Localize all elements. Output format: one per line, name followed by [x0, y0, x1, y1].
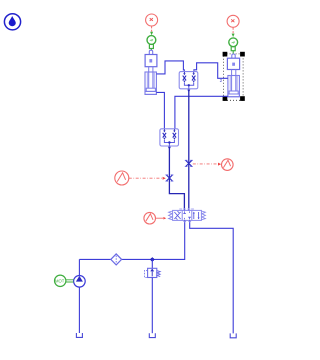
wire W3: C1 piston port to CV2 left pin [156, 92, 164, 128]
filter F1 [111, 254, 122, 265]
check valve block CV2 (pilot operated, lower) [160, 129, 179, 146]
pressure sensor PS1 (left, red dial) [146, 14, 158, 26]
selection frame around right jack [223, 52, 245, 101]
signal link O2 to G2 (dash-dot with arrow) [193, 163, 221, 166]
directional valve DV1 (4/3 proportional) [169, 208, 206, 222]
variable orifice O1 (on A-line) [165, 175, 173, 181]
wire W9: pump outlet to junction [79, 259, 152, 275]
signal link G1 to O1 (dash-dot with arrow) [129, 177, 166, 180]
pump P1 [74, 276, 86, 288]
pressure sensor PS2 (right, red dial) [227, 15, 239, 27]
wire W2: CV1 right pin to C2 rod port [194, 63, 228, 79]
flow sensor FS2 (right, green) [229, 38, 238, 54]
signal source G1 (left dial for O1) [115, 171, 129, 185]
mass load M2 on right jack [227, 54, 239, 70]
electric motor MOT [55, 275, 74, 286]
svg-text:MOT: MOT [55, 279, 65, 284]
signal link PS2 to flow sensor (red dashed with arrow) [232, 28, 235, 38]
CV1 outlet arrow [187, 90, 190, 93]
tank T2 [149, 333, 155, 337]
variable orifice O2 (on B-line) [185, 160, 193, 166]
wire W5 (A-line): CV2 outlet to valve port A [169, 147, 184, 209]
tank T1 [76, 333, 82, 337]
mass load M1 on left jack [145, 50, 157, 66]
flow sensor FS1 (left, green) [147, 36, 156, 51]
junction J1 [151, 258, 154, 261]
hydraulic fluid properties icon [4, 14, 20, 30]
signal source G2 (right dial for O2) [222, 159, 234, 171]
hydraulic jack C1 (left cylinder) [145, 67, 156, 95]
pump suction line [78, 287, 80, 333]
hydraulic jack C2 (right cylinder, selected) [228, 70, 240, 97]
signal link PS1 to flow sensor (red dashed with arrow) [150, 26, 153, 35]
wire W4: CV2 right pin to C2 piston port [175, 96, 228, 128]
wire W1: C1 rod port to CV1 left pin [156, 61, 184, 74]
tank T3 [230, 333, 236, 337]
relief valve RV1 [144, 259, 160, 333]
wire W6 (B-line): CV1 outlet to valve port B [188, 89, 190, 208]
signal link G3 to valve (with arrow) [156, 217, 167, 220]
signal source G3 (valve command dial) [144, 212, 156, 224]
check valve block CV1 (pilot operated, upper) [179, 72, 198, 89]
CV2 outlet arrow [168, 147, 171, 150]
wire W7 (P-line): pump line up to valve port P [152, 222, 184, 259]
wire W8 (T-line): valve port T to right tank [190, 222, 234, 333]
